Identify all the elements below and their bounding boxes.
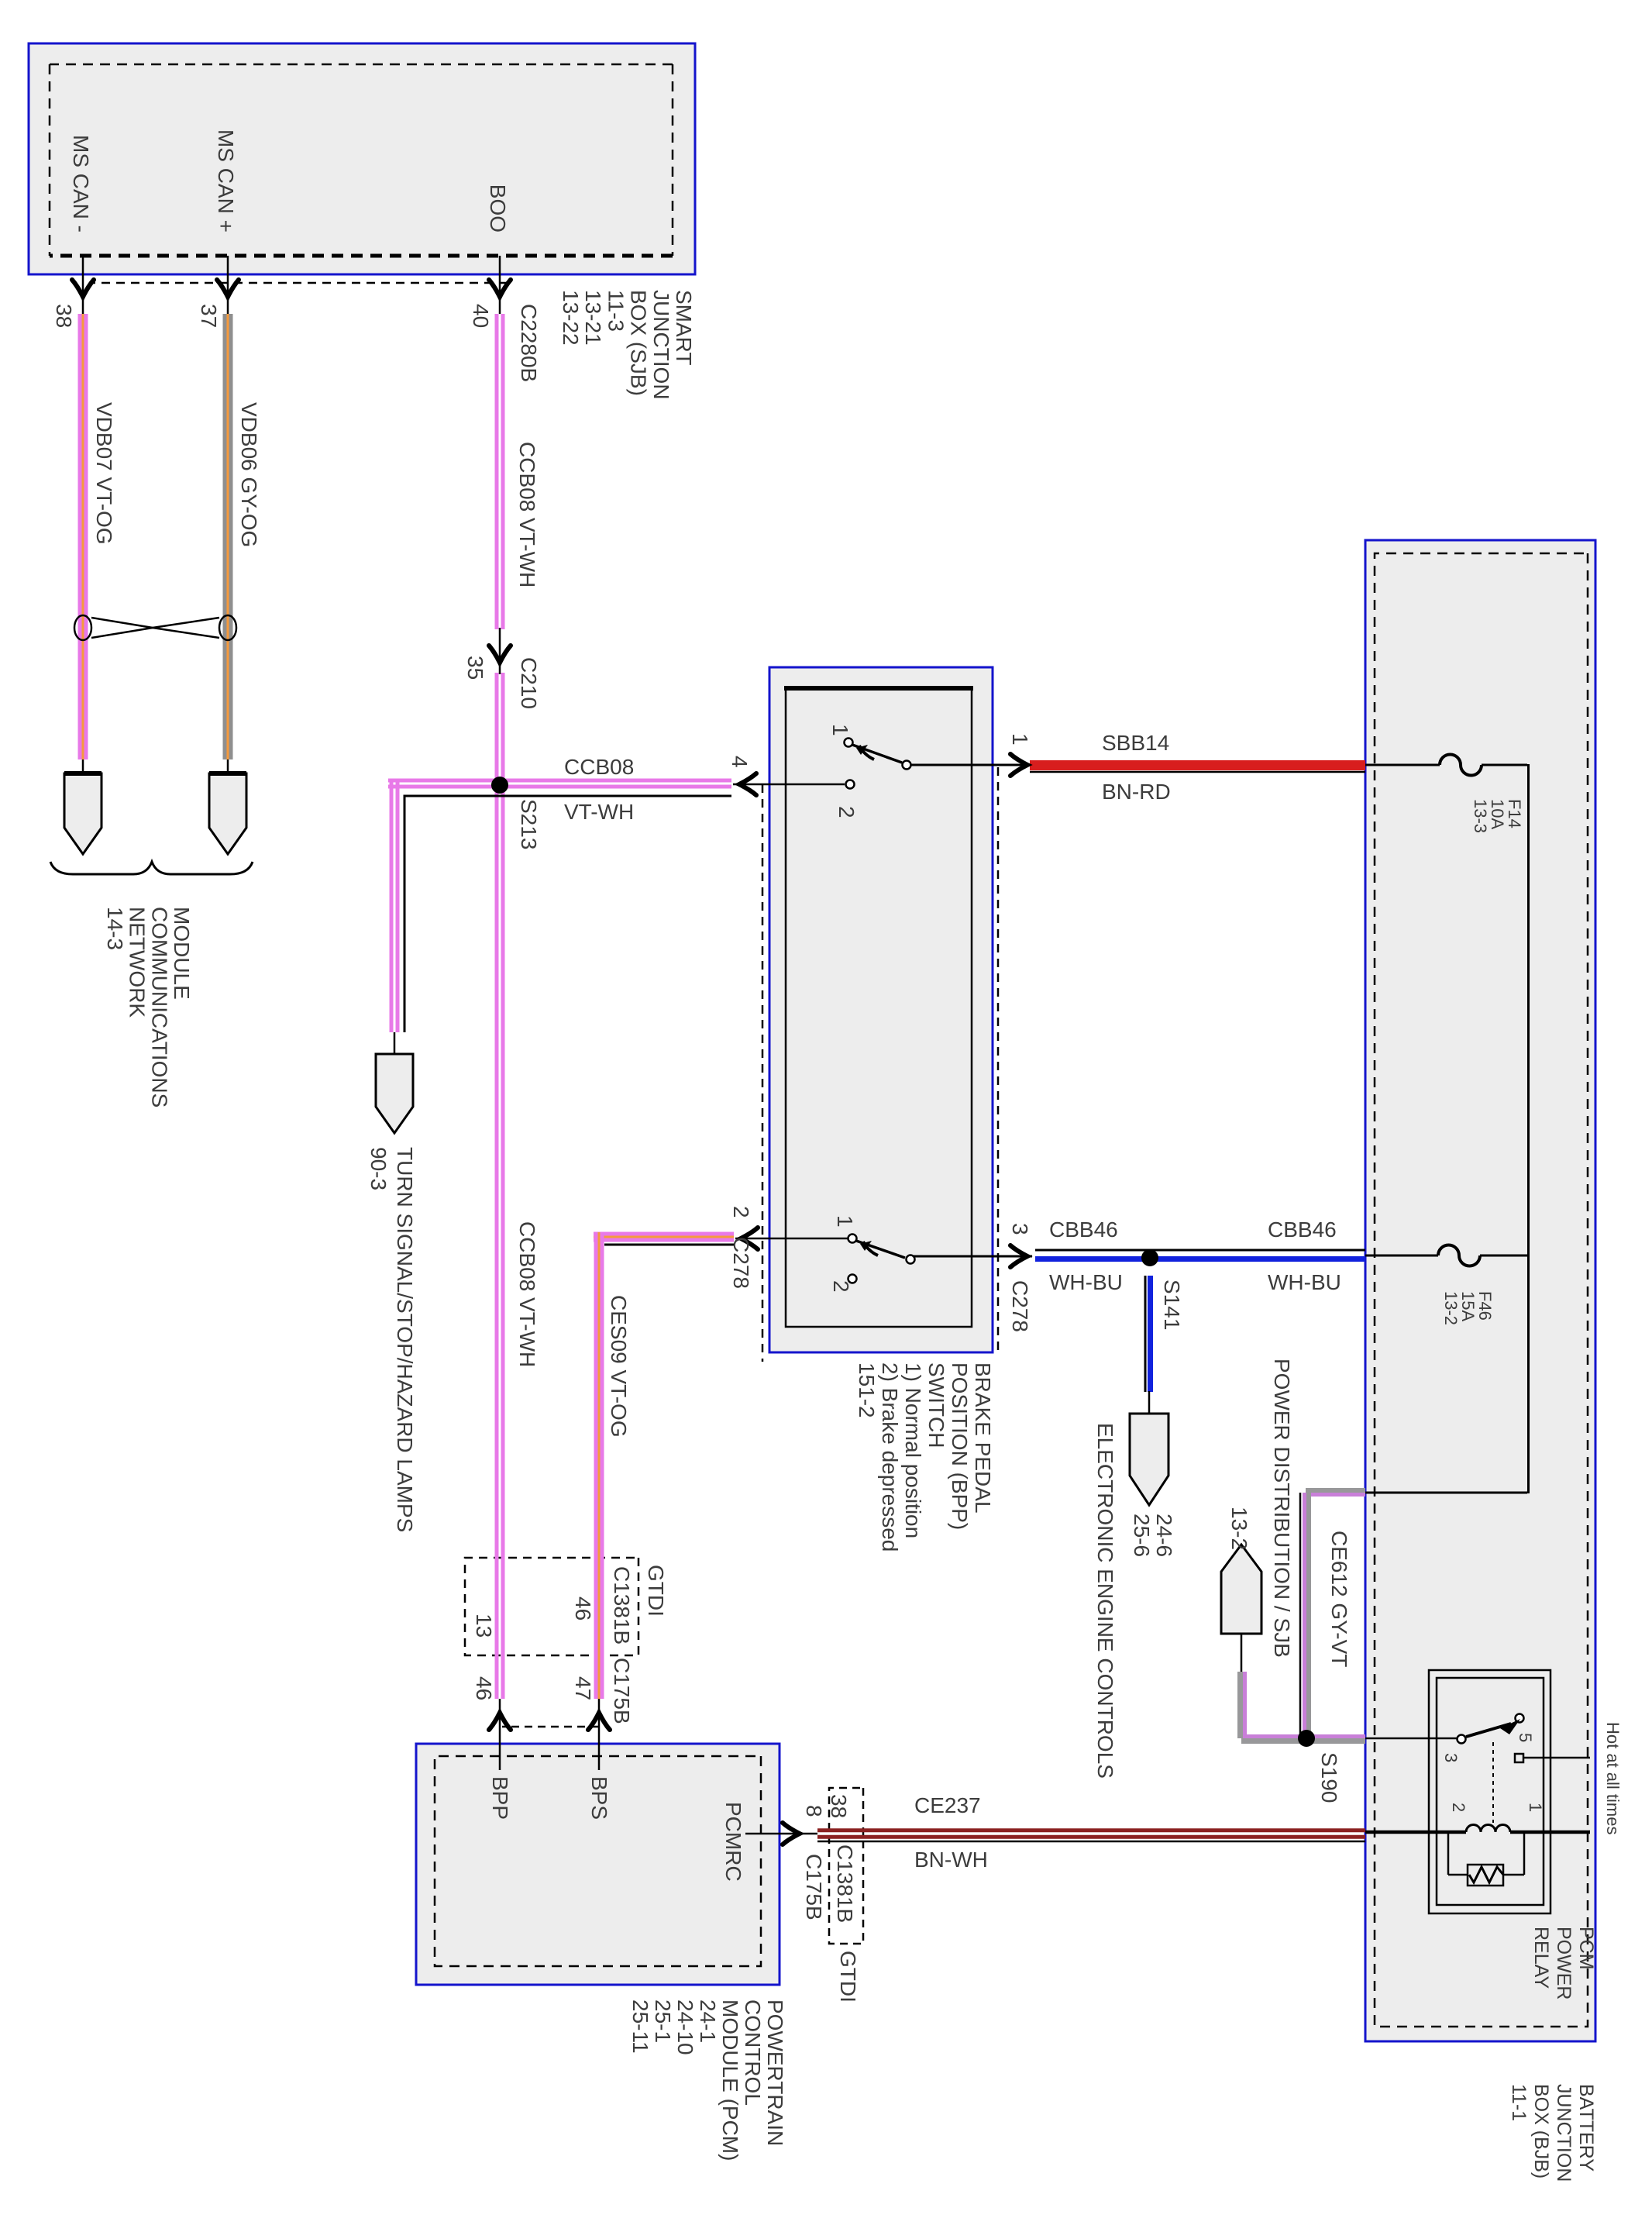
svg-text:BOO: BOO (486, 184, 510, 232)
svg-text:CCB08 VT-WH: CCB08 VT-WH (515, 442, 539, 587)
svg-text:C278: C278 (1008, 1280, 1032, 1332)
svg-text:25-11: 25-11 (628, 1999, 652, 2054)
svg-text:BOX (BJB): BOX (BJB) (1530, 2084, 1552, 2179)
svg-text:JUNCTION: JUNCTION (1553, 2084, 1575, 2182)
svg-text:1: 1 (833, 1215, 857, 1228)
svg-text:BRAKE PEDAL: BRAKE PEDAL (971, 1362, 995, 1514)
svg-text:24-1: 24-1 (696, 1999, 720, 2043)
svg-text:35: 35 (463, 656, 487, 680)
svg-text:1: 1 (828, 724, 852, 736)
svg-text:8: 8 (802, 1805, 826, 1817)
svg-text:13-2: 13-2 (1227, 1507, 1251, 1550)
svg-text:VDB07 VT-OG: VDB07 VT-OG (92, 402, 116, 545)
svg-text:SMART: SMART (672, 290, 696, 366)
svg-text:MODULE (PCM): MODULE (PCM) (718, 1999, 742, 2161)
svg-text:POWER: POWER (1553, 1927, 1575, 1999)
svg-text:11-1: 11-1 (1508, 2084, 1530, 2121)
svg-text:CES09 VT-OG: CES09 VT-OG (607, 1295, 631, 1438)
svg-text:BN-WH: BN-WH (914, 1848, 988, 1872)
svg-text:JUNCTION: JUNCTION (649, 290, 673, 400)
svg-text:BOX (SJB): BOX (SJB) (627, 290, 651, 396)
svg-text:2: 2 (1449, 1803, 1468, 1812)
svg-text:SWITCH: SWITCH (924, 1362, 948, 1448)
svg-text:38: 38 (827, 1794, 851, 1818)
svg-text:WH-BU: WH-BU (1049, 1270, 1123, 1294)
svg-text:3: 3 (1441, 1753, 1461, 1762)
svg-text:24-6: 24-6 (1152, 1514, 1176, 1557)
svg-text:24-10: 24-10 (673, 1999, 697, 2055)
svg-text:POWERTRAIN: POWERTRAIN (763, 1999, 787, 2146)
svg-text:C1381B: C1381B (833, 1844, 857, 1923)
svg-text:CONTROL: CONTROL (741, 1999, 765, 2106)
svg-text:13-22: 13-22 (559, 290, 583, 346)
svg-text:25-6: 25-6 (1130, 1514, 1154, 1557)
svg-text:ELECTRONIC ENGINE CONTROLS: ELECTRONIC ENGINE CONTROLS (1093, 1423, 1117, 1779)
svg-text:1: 1 (1008, 733, 1032, 746)
svg-text:46: 46 (571, 1596, 595, 1621)
svg-text:BPP: BPP (488, 1776, 512, 1820)
svg-text:GTDI: GTDI (836, 1951, 860, 2003)
svg-text:WH-BU: WH-BU (1268, 1270, 1341, 1294)
svg-text:C2280B: C2280B (517, 304, 541, 382)
svg-text:38: 38 (52, 304, 76, 328)
svg-text:CE612 GY-VT: CE612 GY-VT (1327, 1531, 1351, 1667)
svg-text:MS CAN -: MS CAN - (69, 135, 93, 232)
svg-text:POWER DISTRIBUTION / SJB: POWER DISTRIBUTION / SJB (1270, 1359, 1294, 1658)
svg-text:4: 4 (728, 756, 752, 768)
svg-text:SBB14: SBB14 (1102, 731, 1169, 755)
svg-text:POSITION (BPP): POSITION (BPP) (948, 1362, 972, 1530)
svg-text:40: 40 (469, 304, 493, 328)
svg-text:2: 2 (829, 1280, 853, 1293)
svg-text:PCM: PCM (1575, 1927, 1597, 1970)
svg-text:C1381B: C1381B (610, 1566, 634, 1645)
svg-text:TURN SIGNAL/STOP/HAZARD LAMPS: TURN SIGNAL/STOP/HAZARD LAMPS (393, 1147, 417, 1532)
svg-text:VT-WH: VT-WH (564, 800, 634, 824)
svg-text:BN-RD: BN-RD (1102, 780, 1171, 804)
svg-text:11-3: 11-3 (604, 290, 628, 332)
svg-text:46: 46 (472, 1676, 496, 1700)
svg-text:13: 13 (472, 1614, 496, 1638)
svg-text:S213: S213 (517, 799, 541, 849)
svg-text:S190: S190 (1317, 1752, 1341, 1803)
svg-text:CBB46: CBB46 (1268, 1218, 1337, 1242)
svg-text:13-2: 13-2 (1441, 1291, 1461, 1325)
svg-text:25-1: 25-1 (651, 1999, 675, 2043)
svg-text:2: 2 (729, 1206, 753, 1218)
svg-text:13-21: 13-21 (581, 290, 605, 346)
svg-text:C278: C278 (729, 1237, 753, 1289)
svg-text:47: 47 (571, 1676, 595, 1700)
svg-text:CCB08: CCB08 (564, 755, 634, 779)
svg-text:2) Brake depressed: 2) Brake depressed (878, 1362, 902, 1552)
svg-text:2: 2 (835, 806, 859, 818)
svg-text:1) Normal position: 1) Normal position (901, 1362, 925, 1538)
svg-text:37: 37 (197, 304, 221, 328)
svg-text:BPS: BPS (587, 1776, 611, 1820)
svg-text:CBB46: CBB46 (1049, 1218, 1118, 1242)
svg-text:MODULE: MODULE (170, 907, 194, 1000)
svg-text:MS CAN +: MS CAN + (214, 129, 238, 232)
svg-text:F14: F14 (1505, 799, 1524, 828)
svg-text:151-2: 151-2 (855, 1362, 879, 1418)
svg-text:F46: F46 (1475, 1291, 1495, 1321)
svg-text:5: 5 (1516, 1733, 1535, 1742)
svg-text:90-3: 90-3 (367, 1147, 391, 1190)
svg-text:14-3: 14-3 (103, 907, 127, 950)
svg-text:C175B: C175B (610, 1658, 634, 1724)
svg-text:GTDI: GTDI (644, 1565, 668, 1617)
svg-text:C175B: C175B (802, 1854, 826, 1920)
svg-text:COMMUNICATIONS: COMMUNICATIONS (147, 907, 171, 1107)
svg-text:CE237: CE237 (914, 1793, 981, 1817)
svg-text:VDB06 GY-OG: VDB06 GY-OG (237, 402, 261, 547)
svg-text:15A: 15A (1458, 1291, 1478, 1321)
svg-text:CCB08 VT-WH: CCB08 VT-WH (515, 1221, 539, 1367)
svg-text:1: 1 (1526, 1803, 1545, 1812)
svg-text:NETWORK: NETWORK (126, 907, 150, 1018)
svg-text:S141: S141 (1160, 1280, 1184, 1330)
svg-text:C210: C210 (517, 657, 541, 709)
svg-text:BATTERY: BATTERY (1575, 2084, 1597, 2172)
svg-text:RELAY: RELAY (1530, 1927, 1552, 1989)
svg-text:Hot at all times: Hot at all times (1603, 1722, 1623, 1835)
svg-text:3: 3 (1008, 1223, 1032, 1235)
svg-text:13-3: 13-3 (1471, 799, 1490, 833)
svg-text:10A: 10A (1488, 799, 1507, 829)
svg-text:PCMRC: PCMRC (721, 1802, 745, 1882)
